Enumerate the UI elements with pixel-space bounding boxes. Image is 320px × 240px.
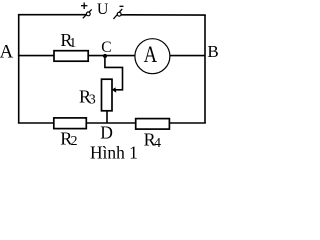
terminal + (plug symbol with slash) — [83, 9, 92, 18]
svg-text:3: 3 — [89, 93, 96, 108]
label + polarity — [81, 3, 87, 10]
wire: node C to R3 wiper (down, right, down, left) — [105, 56, 123, 90]
wire: bottom rail (through R2, node D, R4) — [18, 122, 206, 124]
wire: middle branch (node A through R1, node C, ammeter to node B) — [18, 55, 205, 57]
terminal - (plug symbol with slash) — [113, 9, 122, 19]
wire: left rail (top corner down through node A to bottom corner) — [18, 15, 20, 123]
svg-text:2: 2 — [71, 134, 78, 149]
svg-text:B: B — [207, 42, 218, 61]
resistor R2 — [54, 118, 87, 129]
potentiometer R3 body — [102, 79, 113, 111]
R3 wiper arrow — [112, 87, 117, 92]
resistor R1 — [54, 51, 88, 62]
wire: top rail right segment (- terminal to right corner) — [121, 14, 206, 16]
svg-text:C: C — [101, 39, 111, 56]
label - polarity — [120, 5, 124, 7]
svg-text:Hình 1: Hình 1 — [90, 143, 138, 163]
svg-text:4: 4 — [154, 136, 161, 151]
svg-text:A: A — [144, 42, 158, 67]
ammeter A — [135, 39, 170, 74]
resistor R4 — [136, 119, 170, 130]
wire: R3 bottom terminal to node D — [106, 111, 108, 123]
svg-text:A: A — [0, 41, 14, 62]
wire: right rail (top corner down through node B to bottom corner) — [204, 15, 206, 123]
svg-text:1: 1 — [69, 36, 76, 51]
svg-text:D: D — [100, 123, 113, 143]
wire: top rail left segment (left corner to + terminal) — [18, 14, 88, 16]
node C junction dot — [103, 54, 107, 58]
svg-text:U: U — [97, 1, 109, 18]
